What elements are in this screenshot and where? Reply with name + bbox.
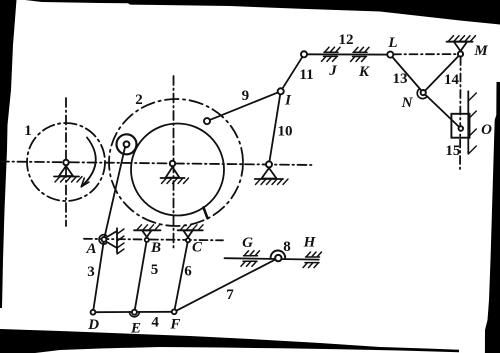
- pivot of gear 2: [161, 161, 189, 184]
- slider block O: [451, 114, 469, 138]
- fixed pivot under link 10: [255, 161, 288, 184]
- link 12: [304, 53, 390, 55]
- svg-text:H: H: [303, 235, 317, 251]
- svg-text:2: 2: [135, 92, 143, 108]
- rotation arrow on gear 1: [81, 138, 95, 187]
- guide K: [351, 47, 370, 61]
- svg-text:5: 5: [151, 262, 159, 278]
- vertical guide for slider O: [468, 91, 476, 154]
- svg-text:8: 8: [283, 239, 291, 255]
- eccentric pulley rim on gear 2: [117, 134, 137, 154]
- guide G: [241, 251, 260, 266]
- joint I: [278, 88, 284, 94]
- svg-text:13: 13: [393, 71, 408, 87]
- slide rod G H: [225, 258, 319, 259]
- scan border top: [17, 0, 500, 25]
- svg-text:K: K: [358, 64, 370, 80]
- link 10 I to fixed pivot: [269, 91, 281, 164]
- support at C: [178, 225, 203, 243]
- svg-text:7: 7: [226, 287, 234, 303]
- svg-text:B: B: [150, 240, 161, 256]
- vertical centerline through M and O: [459, 57, 462, 171]
- slider joint 8: [271, 250, 286, 261]
- joint 11-12: [301, 51, 307, 57]
- svg-text:G: G: [242, 235, 253, 251]
- svg-text:11: 11: [299, 67, 313, 83]
- link 5 B to E: [134, 240, 146, 312]
- svg-text:14: 14: [444, 72, 460, 88]
- svg-text:9: 9: [242, 88, 250, 104]
- support at M: [447, 36, 476, 57]
- gear 2 pitch circle (solid): [131, 124, 224, 216]
- svg-text:12: 12: [339, 32, 354, 48]
- centerline through A B C: [84, 239, 223, 241]
- svg-text:4: 4: [151, 315, 159, 331]
- gear 2 outer circle (chain): [109, 99, 243, 226]
- joint E: [129, 310, 139, 317]
- link 9: [207, 91, 281, 121]
- svg-text:D: D: [87, 317, 99, 333]
- svg-text:L: L: [387, 35, 397, 51]
- scan border right: [485, 82, 500, 353]
- scan border bottom: [0, 329, 459, 353]
- joint F: [172, 309, 177, 314]
- link 4 D E F: [93, 311, 174, 313]
- gear 2 vertical centerline: [173, 76, 175, 249]
- svg-text:1: 1: [24, 123, 32, 139]
- link 11 I to top joint: [281, 54, 304, 91]
- gear 1 vertical centerline: [65, 98, 67, 226]
- svg-text:6: 6: [184, 264, 192, 280]
- centerline L to M: [393, 53, 458, 55]
- guide H: [303, 252, 322, 268]
- link 7 F to slider 8: [174, 258, 278, 312]
- svg-text:J: J: [328, 63, 337, 79]
- key stub on gear 2 rim: [204, 208, 208, 219]
- svg-text:A: A: [85, 241, 96, 257]
- link 15 N to O: [423, 93, 461, 129]
- eccentric pulley pin: [124, 141, 130, 147]
- svg-text:C: C: [192, 240, 203, 256]
- support bracket at A: [106, 228, 124, 254]
- link 13 L to N: [390, 55, 423, 93]
- svg-text:M: M: [473, 43, 488, 59]
- joint D: [91, 310, 96, 315]
- eccentric rod pulley to A: [104, 145, 126, 240]
- gear 1 pitch circle (chain): [27, 123, 105, 201]
- guide J: [322, 47, 341, 61]
- svg-text:3: 3: [87, 264, 95, 280]
- main horizontal centerline through gears: [0, 162, 312, 166]
- scan border left: [0, 0, 17, 308]
- link 3 A to D: [93, 239, 104, 312]
- svg-text:O: O: [481, 122, 492, 138]
- svg-text:F: F: [169, 317, 180, 333]
- svg-text:15: 15: [445, 143, 460, 159]
- joint N: [417, 89, 427, 99]
- pivot of gear 1: [54, 160, 82, 182]
- support at B: [134, 225, 161, 242]
- svg-text:N: N: [401, 95, 414, 111]
- joint at gear end of link 9: [204, 118, 210, 124]
- joint L: [387, 52, 393, 58]
- joint A: [99, 235, 106, 244]
- link 14 N to M: [423, 54, 460, 93]
- svg-text:E: E: [130, 321, 141, 337]
- svg-text:I: I: [284, 93, 292, 109]
- svg-text:10: 10: [278, 124, 293, 140]
- link 6 C to F: [174, 240, 188, 311]
